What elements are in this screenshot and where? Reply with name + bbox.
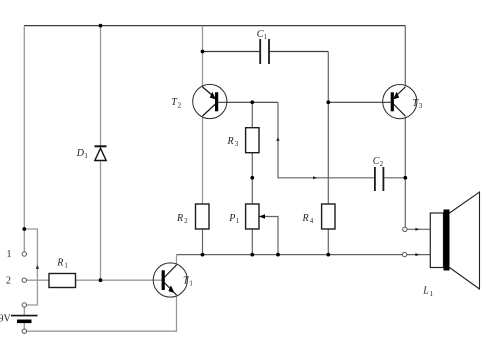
svg-text:3: 3 [419, 102, 423, 110]
svg-text:1: 1 [236, 217, 240, 225]
svg-text:R: R [56, 257, 63, 268]
svg-text:R: R [176, 213, 183, 224]
svg-text:1: 1 [430, 290, 434, 298]
svg-text:2: 2 [380, 160, 384, 168]
svg-text:1: 1 [264, 33, 268, 41]
svg-text:L: L [422, 286, 429, 297]
svg-text:R: R [227, 136, 234, 147]
svg-text:1: 1 [84, 152, 88, 160]
svg-text:2: 2 [178, 101, 182, 109]
svg-text:1: 1 [64, 262, 68, 270]
svg-text:4: 4 [310, 217, 314, 225]
svg-text:1: 1 [189, 280, 193, 288]
svg-text:3: 3 [235, 140, 239, 148]
svg-text:9V: 9V [0, 314, 12, 325]
svg-text:P: P [228, 213, 235, 224]
svg-text:2: 2 [184, 217, 188, 225]
svg-text:1: 1 [7, 249, 12, 260]
svg-text:R: R [302, 213, 309, 224]
svg-text:2: 2 [6, 275, 11, 286]
